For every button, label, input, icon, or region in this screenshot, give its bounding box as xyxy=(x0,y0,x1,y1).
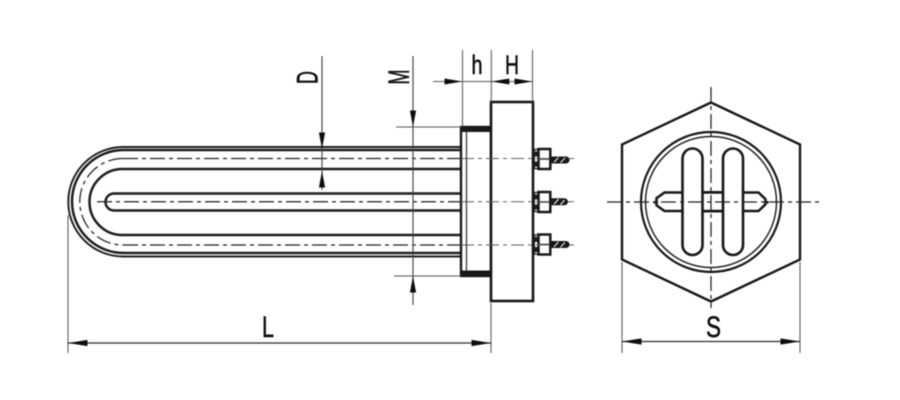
svg-text:D: D xyxy=(292,71,325,84)
svg-text:S: S xyxy=(706,311,721,344)
svg-text:L: L xyxy=(262,311,274,344)
svg-text:H: H xyxy=(505,50,519,80)
svg-text:M: M xyxy=(383,70,416,85)
svg-text:h: h xyxy=(472,50,483,80)
